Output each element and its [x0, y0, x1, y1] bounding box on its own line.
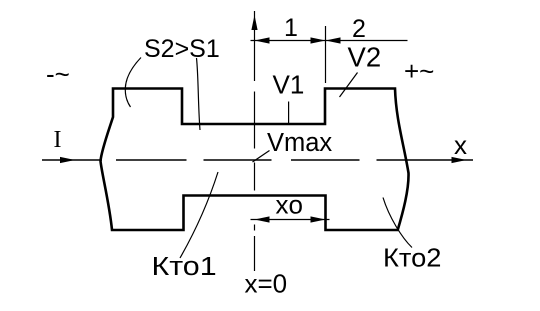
- wire leader Kto2: [383, 198, 412, 248]
- node vertical axis up arrow: [251, 15, 257, 30]
- wire dimension line 1 and 2: [251, 40, 408, 42]
- svg-text:x: x: [454, 130, 467, 160]
- svg-text:S2>S1: S2>S1: [144, 35, 220, 63]
- wire leader S1: [197, 58, 201, 130]
- node dim1 right arrow: [311, 37, 326, 43]
- svg-text:x=0: x=0: [245, 269, 288, 299]
- wire xo dimension line: [251, 219, 330, 221]
- node I current arrow: [60, 157, 75, 163]
- svg-text:Vmax: Vmax: [267, 129, 332, 157]
- svg-text:2: 2: [352, 15, 366, 43]
- wire vertical axis centerline x=0: [254, 11, 256, 271]
- svg-text:V1: V1: [273, 70, 305, 100]
- conductor outline busbar: [101, 89, 409, 231]
- wire leader V1: [288, 102, 290, 124]
- wire leader S2: [125, 58, 141, 108]
- svg-text:I: I: [54, 127, 62, 153]
- svg-text:-~: -~: [46, 59, 70, 89]
- wire extension line: [325, 26, 327, 83]
- wire horizontal x-axis centerline: [42, 159, 473, 161]
- svg-text:Кто1: Кто1: [152, 251, 217, 280]
- wire leader V2: [340, 73, 358, 98]
- svg-text:xo: xo: [276, 190, 303, 220]
- node xo left arrow: [255, 216, 270, 222]
- node xo right arrow: [311, 216, 326, 222]
- wire leader Kto1: [180, 172, 218, 258]
- wire leader Vmax: [253, 151, 270, 163]
- svg-text:1: 1: [284, 14, 298, 42]
- svg-text:V2: V2: [348, 41, 382, 72]
- svg-text:+~: +~: [404, 56, 434, 86]
- node dim1 left arrow: [255, 37, 270, 43]
- node dim2 left arrow: [326, 37, 341, 43]
- node x axis arrow: [452, 157, 467, 163]
- svg-text:Кто2: Кто2: [383, 243, 441, 272]
